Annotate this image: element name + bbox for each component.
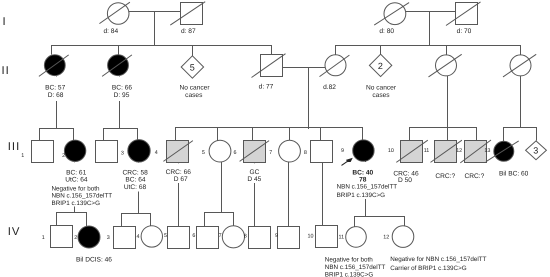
svg-text:NBN c.156_157delTT: NBN c.156_157delTT bbox=[337, 184, 398, 191]
svg-text:Carrier of BRIP1 c.139C>G: Carrier of BRIP1 c.139C>G bbox=[390, 265, 467, 272]
svg-text:D 50: D 50 bbox=[398, 177, 412, 184]
svg-text:CRC: 66: CRC: 66 bbox=[166, 169, 192, 176]
svg-text:d: 80: d: 80 bbox=[379, 28, 394, 35]
svg-text:8: 8 bbox=[244, 234, 247, 240]
svg-text:11: 11 bbox=[338, 234, 344, 240]
svg-text:1: 1 bbox=[21, 153, 24, 159]
svg-text:3: 3 bbox=[121, 151, 124, 157]
svg-text:Negative for NBN c.156_157delT: Negative for NBN c.156_157delTT bbox=[390, 256, 486, 263]
svg-text:8: 8 bbox=[304, 150, 307, 156]
svg-text:1: 1 bbox=[42, 235, 45, 241]
svg-text:2: 2 bbox=[378, 61, 383, 71]
svg-text:II: II bbox=[2, 65, 10, 77]
svg-text:NBN c.156_157delTT: NBN c.156_157delTT bbox=[52, 193, 113, 200]
svg-text:13: 13 bbox=[484, 148, 490, 154]
svg-text:No cancer: No cancer bbox=[179, 85, 210, 92]
svg-text:NBN c.156_157delTT: NBN c.156_157delTT bbox=[325, 264, 386, 271]
svg-text:UtC: 64: UtC: 64 bbox=[65, 177, 88, 184]
svg-text:Bil BC: 60: Bil BC: 60 bbox=[499, 171, 529, 178]
svg-text:12: 12 bbox=[383, 234, 389, 240]
svg-text:BC: 57: BC: 57 bbox=[45, 85, 65, 92]
svg-text:d: 77: d: 77 bbox=[259, 84, 274, 91]
svg-text:9: 9 bbox=[275, 233, 278, 239]
svg-text:78: 78 bbox=[359, 177, 367, 184]
svg-text:cases: cases bbox=[372, 92, 390, 99]
svg-text:4: 4 bbox=[137, 234, 140, 240]
svg-text:5: 5 bbox=[202, 150, 205, 156]
svg-text:cases: cases bbox=[185, 92, 203, 99]
svg-text:D: 68: D: 68 bbox=[48, 92, 64, 99]
svg-text:GC: GC bbox=[249, 169, 259, 176]
svg-text:10: 10 bbox=[388, 148, 394, 154]
svg-text:CRC:?: CRC:? bbox=[465, 173, 485, 180]
svg-text:9: 9 bbox=[341, 148, 344, 154]
svg-text:6: 6 bbox=[192, 233, 195, 239]
svg-text:3: 3 bbox=[533, 146, 538, 156]
svg-text:BRIP1 c.139C>G: BRIP1 c.139C>G bbox=[52, 200, 101, 207]
svg-text:7: 7 bbox=[219, 233, 222, 239]
svg-text:d.82: d.82 bbox=[323, 84, 336, 91]
svg-text:7: 7 bbox=[269, 150, 272, 156]
svg-text:12: 12 bbox=[456, 148, 462, 154]
svg-text:BC: 66: BC: 66 bbox=[112, 85, 132, 92]
svg-text:2: 2 bbox=[74, 235, 77, 241]
svg-text:UtC: 68: UtC: 68 bbox=[124, 184, 147, 191]
svg-text:D 67: D 67 bbox=[174, 176, 188, 183]
svg-text:d: 84: d: 84 bbox=[103, 28, 118, 35]
svg-text:4: 4 bbox=[155, 150, 158, 156]
svg-text:Negative for both: Negative for both bbox=[325, 257, 373, 264]
svg-text:CRC: 58: CRC: 58 bbox=[123, 169, 149, 176]
svg-text:d: 70: d: 70 bbox=[457, 28, 472, 35]
svg-text:I: I bbox=[3, 16, 7, 28]
svg-text:2: 2 bbox=[62, 153, 65, 159]
svg-text:No cancer: No cancer bbox=[366, 85, 397, 92]
svg-text:BC: 64: BC: 64 bbox=[125, 177, 145, 184]
svg-text:BRIP1 c.139C>G: BRIP1 c.139C>G bbox=[325, 271, 374, 277]
svg-text:D: 95: D: 95 bbox=[114, 92, 130, 99]
svg-text:BRIP1 c.139C>G: BRIP1 c.139C>G bbox=[337, 192, 386, 199]
svg-text:BC: 40: BC: 40 bbox=[352, 169, 373, 176]
svg-text:D 45: D 45 bbox=[247, 176, 261, 183]
svg-text:BC: 61: BC: 61 bbox=[66, 169, 86, 176]
svg-text:10: 10 bbox=[308, 234, 314, 240]
svg-text:5: 5 bbox=[164, 233, 167, 239]
svg-text:IV: IV bbox=[8, 226, 21, 238]
svg-text:III: III bbox=[8, 141, 20, 153]
svg-text:CRC:?: CRC:? bbox=[435, 173, 455, 180]
svg-text:11: 11 bbox=[424, 148, 430, 154]
svg-text:5: 5 bbox=[190, 63, 195, 73]
svg-text:Bil DCIS: 46: Bil DCIS: 46 bbox=[76, 257, 112, 264]
svg-text:3: 3 bbox=[107, 235, 110, 241]
svg-text:Negative for both: Negative for both bbox=[52, 185, 100, 192]
svg-text:d: 87: d: 87 bbox=[181, 28, 196, 35]
svg-text:6: 6 bbox=[234, 150, 237, 156]
